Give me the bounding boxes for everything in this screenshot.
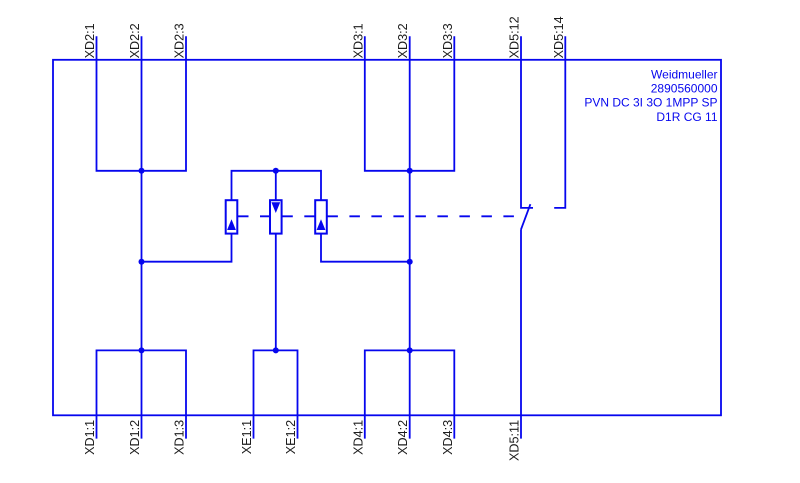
wire XD3:2 to XD4:2 vertical <box>409 36 411 438</box>
arrester F2 body <box>270 200 282 233</box>
wire XD5:14 with contact tick <box>554 36 565 208</box>
wire F3 bottom to XD4:2 <box>321 234 410 262</box>
svg-text:XE1:1: XE1:1 <box>240 420 254 454</box>
wire F2 bottom to XE1 bus <box>275 234 277 351</box>
svg-text:XD5:12: XD5:12 <box>508 16 522 58</box>
junction node XD4 bus <box>407 347 413 353</box>
svg-text:XD3:3: XD3:3 <box>441 23 455 58</box>
junction node XD2 bus <box>139 168 145 174</box>
junction node XE1 bus <box>273 347 279 353</box>
svg-text:XD3:1: XD3:1 <box>351 23 365 58</box>
svg-text:XD5:14: XD5:14 <box>552 16 566 58</box>
wire XE1 bottom bus <box>254 350 298 438</box>
wire XD1 bottom bus <box>97 350 187 438</box>
wire XD2:2 to XD1:2 vertical <box>141 36 143 438</box>
wire F1 bottom to XD1:2 <box>142 234 232 262</box>
junction node XD3 bus <box>407 168 413 174</box>
wire XD5:12 with contact tick <box>521 36 533 208</box>
wire XD3 top bus <box>365 36 455 171</box>
arrester F1 body <box>226 200 238 233</box>
arrester F3 body <box>315 200 327 233</box>
wire XD2 top bus <box>97 36 187 171</box>
svg-text:XD1:3: XD1:3 <box>173 420 187 455</box>
junction node XD1 bus <box>139 347 145 353</box>
dashed trip line segment F3-switch <box>327 215 515 217</box>
svg-text:XD2:3: XD2:3 <box>173 23 187 58</box>
dashed trip line segment F2-F3 <box>282 215 314 217</box>
enclosure border <box>53 60 721 416</box>
svg-text:2890560000: 2890560000 <box>651 82 718 96</box>
svg-text:XD4:2: XD4:2 <box>396 420 410 455</box>
junction node F1 bottom <box>139 259 145 265</box>
svg-text:XD4:1: XD4:1 <box>351 420 365 455</box>
svg-text:D1R CG 11: D1R CG 11 <box>656 110 717 124</box>
wire switch to XD5:11 <box>520 229 522 438</box>
arrester F2 arrow down <box>271 202 280 213</box>
junction node arrester row top <box>273 168 279 174</box>
svg-text:XD2:2: XD2:2 <box>128 23 142 58</box>
wire XD4 bottom bus <box>365 350 455 438</box>
svg-text:XD2:1: XD2:1 <box>83 23 97 58</box>
svg-text:XD1:1: XD1:1 <box>83 420 97 455</box>
dashed trip line segment F1-F2 <box>238 215 270 217</box>
arrester F1 arrow up <box>227 219 236 230</box>
svg-text:XD5:11: XD5:11 <box>508 420 522 461</box>
arrester F3 arrow up <box>317 219 326 230</box>
svg-text:XE1:2: XE1:2 <box>284 420 298 454</box>
wire arrester row top <box>232 171 322 200</box>
svg-text:XD4:3: XD4:3 <box>441 420 455 455</box>
svg-text:Weidmueller: Weidmueller <box>651 68 717 82</box>
svg-text:PVN DC 3I 3O 1MPP SP: PVN DC 3I 3O 1MPP SP <box>584 96 717 110</box>
wire arrester F2 top <box>275 171 277 200</box>
svg-text:XD3:2: XD3:2 <box>396 23 410 58</box>
svg-text:XD1:2: XD1:2 <box>128 420 142 455</box>
junction node F3 bottom <box>407 259 413 265</box>
switch blade S1 <box>521 204 530 229</box>
